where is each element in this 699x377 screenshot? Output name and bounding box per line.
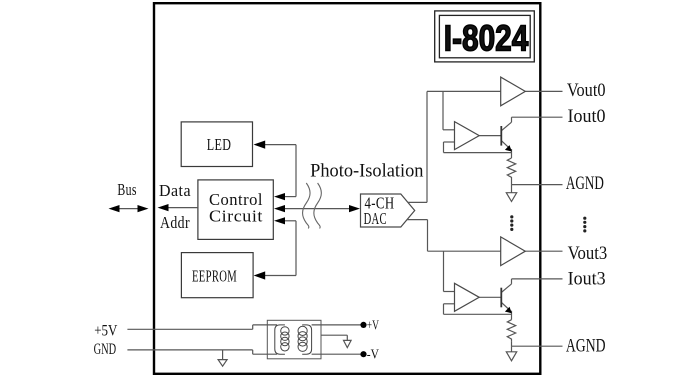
svg-text:AGND: AGND (566, 173, 604, 194)
svg-text:-V: -V (367, 348, 379, 363)
svg-text:Iout0: Iout0 (568, 106, 606, 127)
svg-text:Bus: Bus (117, 180, 136, 199)
svg-text:I-8024: I-8024 (444, 18, 529, 59)
svg-text:AGND: AGND (566, 335, 606, 356)
svg-text:DAC: DAC (364, 209, 387, 228)
svg-text:Addr: Addr (160, 213, 190, 232)
svg-text:LED: LED (207, 135, 232, 154)
svg-text:Photo-Isolation: Photo-Isolation (310, 161, 424, 182)
svg-text:Data: Data (159, 181, 191, 200)
svg-text:+V: +V (367, 318, 379, 333)
svg-text:Iout3: Iout3 (568, 268, 606, 289)
svg-text:Circuit: Circuit (209, 207, 263, 226)
svg-text:Vout0: Vout0 (567, 80, 606, 101)
svg-text:GND: GND (94, 341, 117, 358)
svg-text:EEPROM: EEPROM (192, 267, 237, 286)
svg-text:Vout3: Vout3 (568, 243, 608, 264)
svg-text:+5V: +5V (94, 323, 118, 340)
